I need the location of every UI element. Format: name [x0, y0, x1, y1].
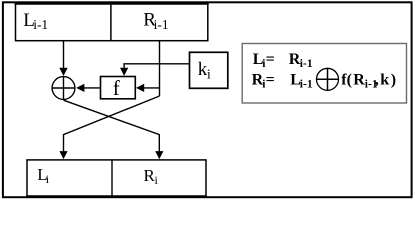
formula term f(Ri-1,k): [341, 72, 397, 91]
xor node: [52, 76, 76, 100]
register box Li-1/Ri-1 (top row): [15, 3, 209, 40]
label Li-1: [23, 10, 48, 32]
svg-text:i: i: [207, 67, 211, 82]
wire L down to xor: [63, 41, 65, 69]
function box f: [101, 77, 136, 99]
label Ri-1: [143, 10, 168, 33]
label Li: [37, 165, 50, 186]
svg-text:i-1: i-1: [33, 17, 48, 32]
wire f output to xor: [84, 87, 101, 89]
arrowhead into f right: [136, 84, 144, 92]
svg-text:=: =: [266, 51, 275, 68]
wire R cross to Li: [64, 96, 160, 152]
svg-text:i-1: i-1: [154, 17, 169, 32]
key box ki: [190, 52, 228, 88]
register box Li/Ri (bottom row): [26, 160, 207, 197]
svg-text:i-1: i-1: [300, 58, 313, 70]
xor symbol in formula: [317, 68, 339, 90]
svg-text:,k): ,k): [375, 72, 398, 89]
arrowhead into Li box: [59, 151, 67, 159]
arrowhead into Ri box: [155, 151, 163, 159]
label ki: [198, 59, 211, 82]
label Ri: [144, 166, 159, 187]
svg-text:f(: f(: [341, 72, 352, 89]
formula line 2: Ri = Li-1 xor f(Ri-1,k): [252, 72, 313, 91]
outer frame: [3, 2, 412, 197]
arrowhead into f top: [120, 68, 128, 76]
formula line 1: Li = Ri-1: [253, 51, 313, 70]
wire k to f top: [124, 64, 189, 69]
wire R down: [159, 41, 161, 96]
svg-text:f: f: [113, 76, 120, 100]
formula box: [242, 44, 406, 104]
arrowhead into xor: [59, 68, 67, 76]
arrowhead into xor right: [76, 84, 84, 92]
svg-text:i-1: i-1: [300, 79, 313, 91]
svg-text:R: R: [353, 72, 365, 89]
wire R to f right: [143, 87, 160, 89]
svg-text:=: =: [266, 72, 275, 89]
wire xor output cross to Ri: [64, 100, 160, 152]
